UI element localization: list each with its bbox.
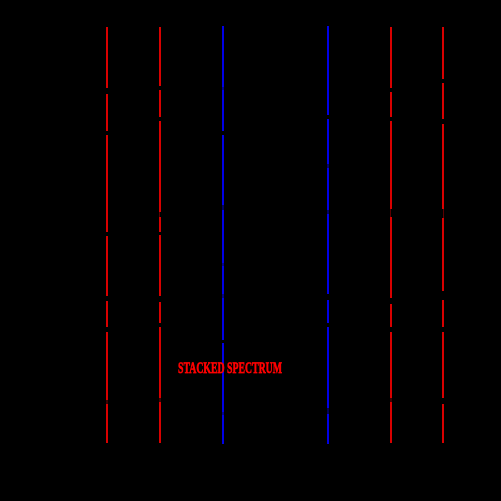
svg-text:STACKED SPECTRUM: STACKED SPECTRUM [178, 360, 282, 377]
wire: blue vertical marker line 4 (x=328) [327, 26, 329, 444]
node: black spectrum crossings over line 4 [327, 115, 330, 414]
node: black spectrum crossings over line 5 [390, 88, 394, 402]
node: black spectrum crossings over line 3 [222, 87, 225, 415]
wire: red vertical marker line 5 (x=391) [390, 27, 392, 443]
node: black spectrum crossings over line 2 [159, 86, 163, 402]
wire: red vertical marker line 2 (x=160) [159, 27, 161, 443]
node: black spectrum crossings over line 6 [441, 79, 445, 404]
wire: red vertical marker line 1 (x=107) [106, 27, 108, 443]
node: black spectrum crossings over line 1 [106, 88, 109, 404]
wire: red vertical marker line 6 (x=443) [442, 27, 444, 443]
wire: blue vertical marker line 3 (x=223) [222, 26, 224, 444]
